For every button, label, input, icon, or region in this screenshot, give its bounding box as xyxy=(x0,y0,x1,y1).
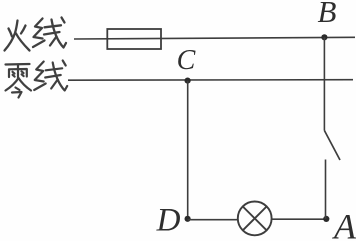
wire live (hot) horizontal xyxy=(74,37,355,39)
label 火线 (live wire label) xyxy=(5,18,67,51)
lamp L1 xyxy=(238,202,272,236)
node D xyxy=(185,216,191,222)
wire D to lamp xyxy=(188,219,238,221)
wire B to switch pivot xyxy=(323,37,325,130)
switch S1 open blade xyxy=(324,131,340,161)
fuse F1 xyxy=(107,29,161,49)
svg-text:D: D xyxy=(156,203,181,239)
wire switch contact to A xyxy=(325,160,327,219)
node C xyxy=(185,78,191,84)
node A xyxy=(323,216,329,222)
svg-text:B: B xyxy=(318,0,337,29)
svg-text:C: C xyxy=(177,45,196,76)
wire neutral horizontal xyxy=(68,79,353,82)
node B xyxy=(321,34,327,40)
label 零线 (neutral wire label) xyxy=(6,61,68,98)
svg-text:A: A xyxy=(332,207,356,241)
wire C to D vertical xyxy=(187,81,189,219)
wire lamp to A xyxy=(272,218,327,220)
